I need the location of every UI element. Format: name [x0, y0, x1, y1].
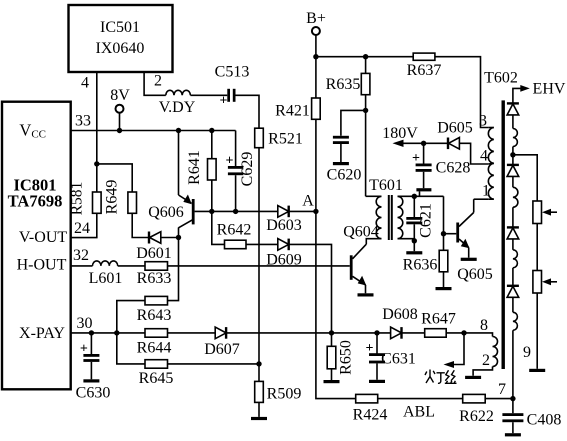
C631 label: [381, 351, 416, 368]
pin 9 label: [523, 344, 531, 361]
C628 label: [436, 160, 471, 177]
svg-text:C628: C628: [436, 160, 471, 177]
svg-text:R424: R424: [353, 407, 388, 424]
svg-text:30: 30: [77, 315, 93, 332]
R645 label: [139, 370, 174, 387]
R509 label: [267, 386, 302, 403]
svg-text:Q606: Q606: [148, 204, 184, 221]
ground C630: [83, 379, 99, 382]
wire 180V arrow: [393, 140, 424, 147]
svg-text:D603: D603: [266, 217, 302, 234]
wire R649 to D601: [132, 213, 149, 237]
svg-text:+: +: [220, 94, 228, 109]
IC U801 box: [2, 102, 71, 390]
wire B+ rail: [316, 56, 413, 58]
svg-text:4: 4: [81, 75, 89, 92]
svg-text:R421: R421: [275, 103, 310, 120]
T601 secondary winding: [398, 196, 444, 238]
capacitor C513: [220, 89, 236, 109]
R636 label: [403, 257, 438, 274]
R647 label: [421, 311, 456, 328]
T601 primary winding: [366, 196, 382, 244]
node 180V/D605/C628: [421, 141, 426, 146]
diode D605: [424, 138, 489, 165]
wire V.DY to C513: [190, 94, 227, 96]
svg-text:7: 7: [498, 381, 506, 398]
pin 3 label: [479, 113, 487, 130]
svg-text:D608: D608: [382, 306, 418, 323]
diode D608: [391, 327, 425, 339]
svg-text:EHV: EHV: [533, 81, 566, 98]
svg-text:X-PAY: X-PAY: [19, 325, 65, 342]
node C621 bottom: [412, 238, 417, 243]
resistor R645: [117, 333, 259, 368]
svg-text:D607: D607: [204, 341, 240, 358]
R643 label: [137, 307, 172, 324]
resistor R649: [128, 192, 137, 213]
diode D609: [278, 239, 332, 333]
ground C620: [333, 162, 349, 165]
svg-text:32: 32: [73, 247, 89, 264]
svg-text:IX0640: IX0640: [96, 40, 145, 57]
R635 label: [326, 76, 361, 93]
ground pots: [529, 369, 545, 372]
R633 label: [137, 270, 172, 287]
capacitor C620: [333, 110, 366, 162]
wire R581 to V-OUT pin24: [71, 213, 97, 237]
pin 4 label: [480, 148, 488, 165]
wire tap to pots: [513, 155, 537, 201]
resistor R633 in series to Q604 base: [118, 262, 350, 271]
T602 secondary winding segment d: [513, 312, 518, 398]
svg-text:+: +: [226, 154, 234, 169]
svg-text:R635: R635: [326, 76, 361, 93]
pin 8 label: [480, 317, 488, 334]
node secondary tap to focus pots: [510, 152, 515, 157]
svg-text:B+: B+: [306, 10, 326, 27]
pin 7 label: [498, 381, 506, 398]
R649 label: [104, 180, 121, 215]
R622 label: [459, 408, 494, 425]
resistor R644: [145, 329, 215, 338]
R521 label: [268, 131, 303, 148]
wire node to R649: [97, 164, 132, 192]
Q606 label: [148, 204, 184, 221]
diode D607: [215, 327, 331, 339]
node R635 top: [363, 54, 368, 59]
svg-text:24: 24: [74, 220, 90, 237]
pin 1 label: [482, 183, 490, 200]
resistor R622: [463, 394, 513, 403]
svg-text:Q605: Q605: [457, 266, 493, 283]
svg-text:R645: R645: [139, 370, 174, 387]
resistor R581: [93, 192, 102, 213]
R650 label: [338, 340, 355, 375]
inductor V.DY: [166, 90, 191, 95]
wire R521 down to R509: [258, 148, 260, 382]
svg-text:R643: R643: [137, 307, 172, 324]
node D601/Q606 collector: [176, 235, 181, 240]
svg-text:2: 2: [482, 352, 490, 369]
V.DY label: [159, 99, 196, 116]
svg-text:180V: 180V: [382, 125, 418, 142]
C629 label: [239, 152, 256, 187]
svg-text:33: 33: [75, 113, 91, 130]
svg-text:R650: R650: [338, 340, 355, 375]
T602 secondary winding segment a: [513, 129, 518, 165]
ABL label: [403, 404, 435, 421]
svg-text:C629: C629: [239, 152, 256, 187]
resistor R635: [361, 57, 370, 197]
svg-text:R641: R641: [186, 150, 203, 185]
T602 primary winding pins 3-4-1: [488, 128, 494, 200]
wire H-OUT pin32: [71, 265, 93, 267]
180V label: [382, 125, 418, 142]
node pin7/C408: [510, 396, 515, 401]
node pin4/R581/R649: [94, 161, 99, 166]
svg-text:R622: R622: [459, 408, 494, 425]
ground filament: [465, 376, 481, 379]
svg-text:C621: C621: [418, 203, 435, 238]
capacitor C628: [412, 143, 432, 188]
node C631 tap: [374, 330, 379, 335]
wire bottom ABL rail: [378, 398, 463, 400]
capacitor C629: [226, 131, 244, 212]
wire Vcc rail pin33: [71, 130, 236, 132]
svg-text:R649: R649: [104, 180, 121, 215]
T602 secondary winding segment c: [513, 250, 518, 286]
T601 core: [389, 195, 392, 240]
terminal B+: [312, 27, 320, 57]
svg-text:V-OUT: V-OUT: [19, 229, 68, 246]
wire X-PAY pin30: [71, 332, 145, 334]
rectifier diode DS4: [507, 286, 519, 313]
terminal 8V: [116, 105, 124, 131]
T602 filament winding pins 8-2: [473, 337, 497, 376]
8V label: [110, 87, 130, 104]
screen potentiometer VR2: [533, 224, 557, 369]
R641 label: [186, 150, 203, 185]
R642 label: [217, 222, 252, 239]
wire filament pin 8: [464, 333, 493, 337]
wire Q606 base: [195, 210, 278, 212]
capacitor C631: [366, 333, 385, 380]
wire EHV: [513, 85, 530, 103]
ground R650: [324, 380, 340, 383]
filament label (dengsi): [425, 370, 445, 384]
svg-text:V.DY: V.DY: [159, 99, 196, 116]
node R647/filament: [461, 330, 466, 335]
resistor R637: [413, 53, 488, 127]
svg-text:C408: C408: [527, 412, 562, 429]
focus potentiometer VR1: [533, 201, 557, 224]
svg-text:C631: C631: [381, 351, 416, 368]
wire T602 pin1 to Q605 collector: [474, 198, 489, 200]
wire Q606 collector down to R643: [168, 238, 179, 301]
R637 label: [407, 62, 442, 79]
node R641 top: [209, 128, 214, 133]
ground C628: [416, 188, 431, 196]
svg-text:T602: T602: [484, 70, 518, 87]
svg-text:8V: 8V: [110, 87, 130, 104]
C408 label: [527, 412, 562, 429]
node R643/R645 tap: [114, 330, 119, 335]
node C630 tap: [89, 330, 94, 335]
resistor R641: [208, 131, 217, 212]
svg-text:R521: R521: [268, 131, 303, 148]
node T601 secondary top / C621: [412, 194, 417, 199]
svg-text:+: +: [80, 342, 88, 357]
EHV label: [533, 81, 566, 98]
svg-text:D605: D605: [437, 120, 473, 137]
svg-text:R509: R509: [267, 386, 302, 403]
pin 4 label: [81, 75, 89, 92]
svg-text:A: A: [302, 193, 314, 210]
pin number labels IC801: [73, 113, 93, 333]
D609 label: [266, 252, 302, 269]
R644 label: [137, 340, 172, 357]
C513 label: [215, 64, 250, 81]
svg-text:IC501: IC501: [100, 19, 140, 36]
svg-text:H-OUT: H-OUT: [17, 257, 67, 274]
svg-text:R633: R633: [137, 270, 172, 287]
node Q605 base / R636: [441, 231, 446, 236]
node 8V junction: [117, 128, 122, 133]
svg-text:R642: R642: [217, 222, 252, 239]
svg-text:2: 2: [154, 73, 162, 90]
svg-text:ABL: ABL: [403, 404, 435, 421]
inductor L601: [93, 261, 118, 266]
node C629 bottom: [233, 209, 238, 214]
D601 label: [136, 245, 172, 262]
resistor R643: [117, 296, 168, 333]
node R645/R509: [256, 361, 261, 366]
ground R509: [251, 417, 267, 420]
resistor R421: [312, 57, 321, 212]
pin 2 label: [154, 73, 162, 90]
svg-text:C630: C630: [76, 385, 111, 402]
svg-text:3: 3: [479, 113, 487, 130]
transistor Q605 (NPN): [444, 199, 474, 258]
svg-text:+: +: [412, 151, 420, 166]
node C620/T601 feed: [363, 108, 368, 113]
IC U801 labels: [8, 121, 68, 343]
svg-text:C620: C620: [327, 167, 362, 184]
svg-text:R647: R647: [421, 311, 456, 328]
resistor R636: [439, 234, 448, 287]
pin 2 label: [482, 352, 490, 369]
C620 label: [327, 167, 362, 184]
resistor R424: [356, 394, 378, 403]
diode D603: [278, 206, 316, 218]
Q605 label: [457, 266, 493, 283]
rectifier diode DS2: [507, 165, 519, 187]
svg-text:D601: D601: [136, 245, 172, 262]
node Q606 emitter on Vcc rail: [176, 128, 181, 133]
R581 label: [69, 182, 86, 216]
svg-text:Q604: Q604: [343, 224, 379, 241]
ground Q605 emitter: [461, 258, 477, 261]
wire pin2 IC501: [144, 72, 166, 95]
D608 label: [382, 306, 418, 323]
svg-text:C513: C513: [215, 64, 250, 81]
ground Q604 emitter: [358, 293, 374, 296]
Q604 label: [343, 224, 379, 241]
R424 label: [353, 407, 388, 424]
rectifier diode DS1 (EHV): [507, 103, 519, 128]
svg-text:R637: R637: [407, 62, 442, 79]
resistor R509: [255, 381, 264, 417]
svg-text:4: 4: [480, 148, 488, 165]
svg-text:L601: L601: [89, 270, 123, 287]
wire C513 to R521: [236, 95, 260, 128]
diode D601: [149, 232, 179, 244]
B+ label: [306, 10, 326, 27]
resistor R647: [425, 329, 464, 338]
T602 core: [502, 100, 505, 369]
rectifier diode DS3: [507, 227, 519, 249]
ground C408: [505, 433, 521, 436]
D605 label: [437, 120, 473, 137]
capacitor C630: [80, 333, 100, 379]
svg-text:9: 9: [523, 344, 531, 361]
node R641 bottom / R642: [209, 209, 214, 214]
node A: [302, 193, 318, 215]
resistor R650: [327, 333, 336, 380]
capacitor C408: [502, 399, 523, 434]
svg-text:R636: R636: [403, 257, 438, 274]
svg-text:8: 8: [480, 317, 488, 334]
ground C631: [369, 380, 385, 383]
L601 label: [89, 270, 123, 287]
ground R636: [436, 287, 452, 290]
resistor R521: [255, 128, 264, 148]
wire pin4 IC501: [96, 72, 98, 192]
svg-text:T601: T601: [369, 177, 403, 194]
D607 label: [204, 341, 240, 358]
transistor Q604 (NPN): [351, 244, 366, 293]
resistor R642: [212, 211, 278, 248]
wire X-PAY line to C631: [332, 332, 391, 334]
node D609/R650 on X-PAY line: [329, 330, 334, 335]
svg-text:R644: R644: [137, 340, 172, 357]
IC U501 box: [69, 5, 173, 72]
transistor Q606 (PNP): [179, 131, 194, 238]
svg-text:TA7698: TA7698: [8, 192, 63, 211]
node B+ junction: [313, 54, 318, 59]
svg-text:+: +: [366, 341, 374, 356]
capacitor C621: [406, 196, 422, 241]
svg-text:R581: R581: [69, 182, 86, 216]
C621 label: [418, 203, 435, 238]
C630 label: [76, 385, 111, 402]
transformer T601 label: [369, 177, 403, 194]
D603 label: [266, 217, 302, 234]
T602 secondary winding segment b: [513, 187, 518, 227]
IC U501 label: [96, 19, 145, 57]
transformer T602 label: [484, 70, 518, 87]
ground T601 secondary: [406, 241, 422, 255]
R421 label: [275, 103, 310, 120]
wire T601 sec top to Q605 base: [443, 196, 445, 233]
wire node A down to R424: [316, 211, 356, 398]
wire filament arrow: [444, 333, 465, 368]
svg-text:1: 1: [482, 183, 490, 200]
